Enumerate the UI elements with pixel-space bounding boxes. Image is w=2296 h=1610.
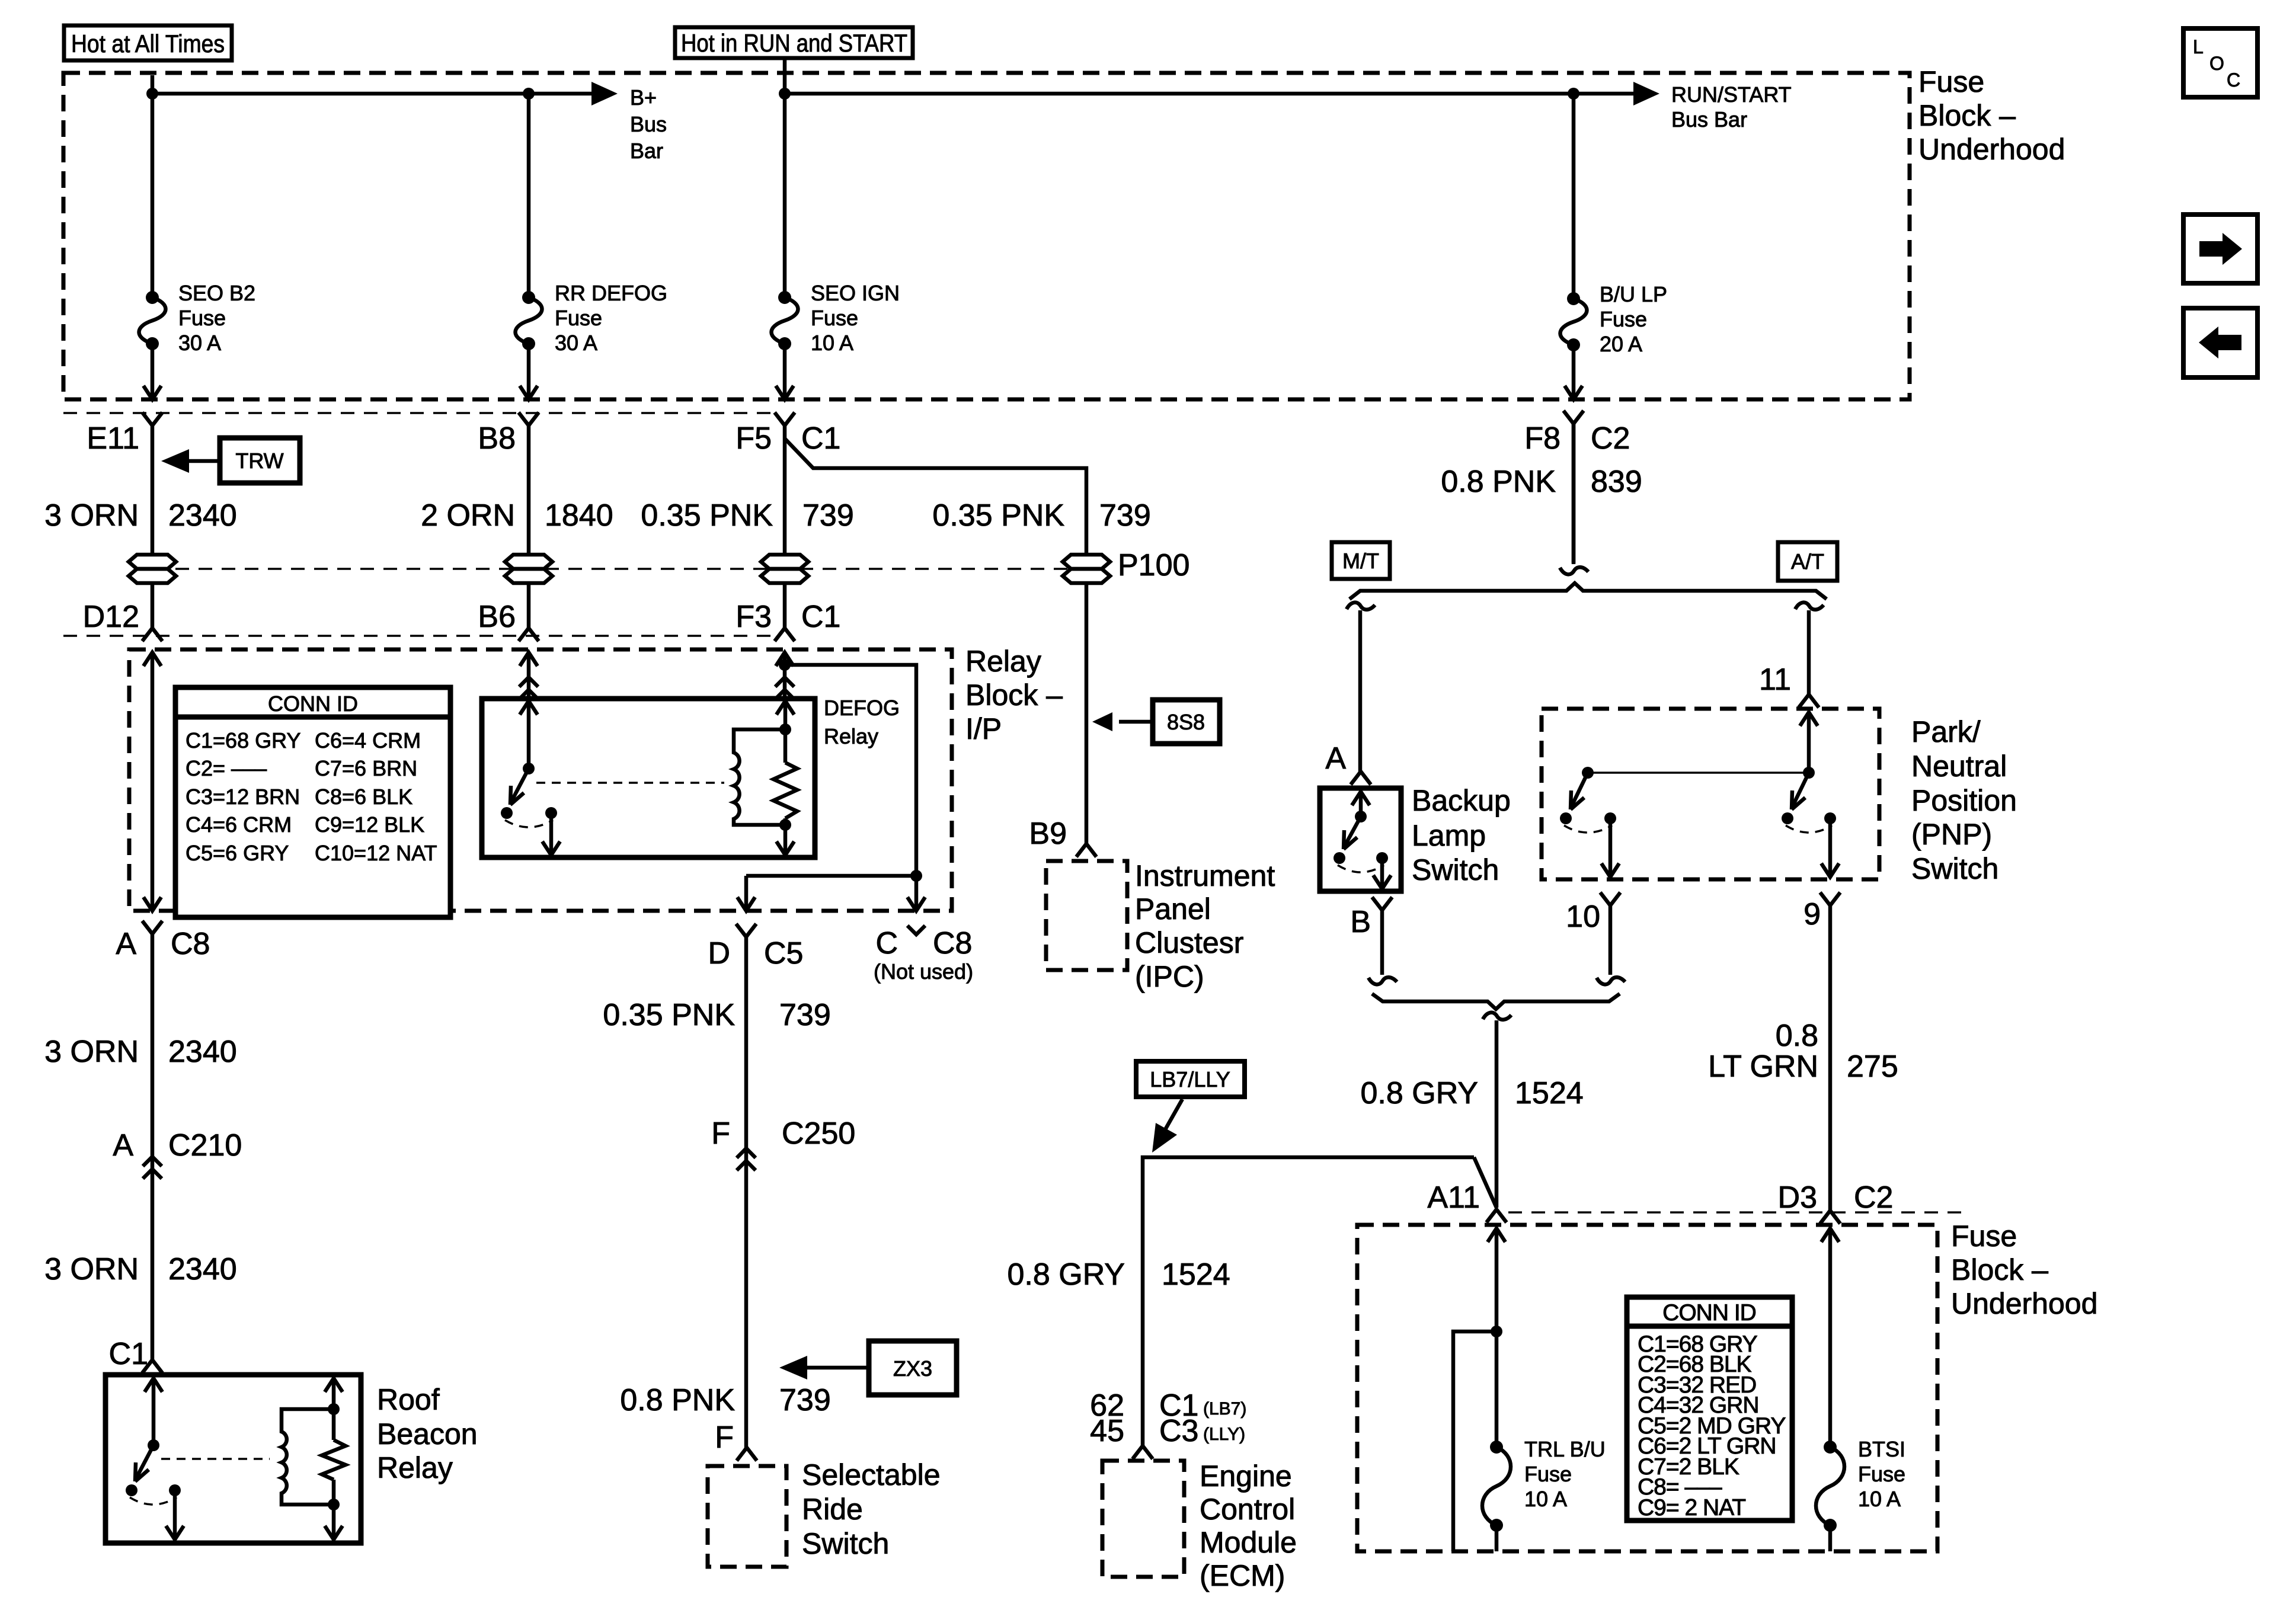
- svg-text:2340: 2340: [168, 1035, 237, 1069]
- fuse B/U LP 20A: [1560, 292, 1587, 351]
- svg-text:B/U LP: B/U LP: [1600, 282, 1667, 306]
- svg-text:D: D: [708, 936, 730, 971]
- connector row C1 thin dashed line (fuse block outputs): [63, 412, 770, 414]
- svg-text:9: 9: [1803, 897, 1821, 932]
- svg-text:SEO IGN: SEO IGN: [811, 281, 900, 305]
- svg-text:B+: B+: [630, 85, 657, 110]
- svg-text:C1: C1: [801, 421, 840, 456]
- connector B chevron: [1372, 897, 1392, 910]
- svg-text:(LLY): (LLY): [1203, 1425, 1245, 1444]
- svg-text:1524: 1524: [1162, 1257, 1230, 1292]
- wire F3 segment: [783, 583, 787, 628]
- connector grommet wireB: [505, 555, 552, 583]
- svg-text:(PNP): (PNP): [1911, 818, 1992, 851]
- svg-text:A: A: [1325, 741, 1346, 776]
- svg-text:BTSI: BTSI: [1858, 1437, 1905, 1461]
- PNP pin 10 output arrow: [1601, 818, 1619, 877]
- svg-text:RUN/START: RUN/START: [1671, 82, 1792, 107]
- svg-text:C: C: [2227, 69, 2240, 91]
- svg-text:Engine: Engine: [1200, 1459, 1292, 1493]
- svg-text:C5: C5: [764, 936, 803, 971]
- svg-text:2 ORN: 2 ORN: [421, 498, 515, 533]
- svg-text:D3: D3: [1778, 1180, 1817, 1215]
- svg-text:(IPC): (IPC): [1135, 960, 1204, 993]
- backup lamp switch pivot: [1355, 811, 1367, 822]
- svg-text:1524: 1524: [1515, 1076, 1584, 1110]
- roof beacon coil junction dots: [328, 1403, 340, 1510]
- wire 0.35 PNK 739 (D-F): [744, 937, 749, 1448]
- svg-text:C: C: [875, 926, 898, 961]
- label C1 (LB7): [1159, 1388, 1246, 1423]
- svg-text:Neutral: Neutral: [1911, 750, 2007, 783]
- svg-text:(ECM): (ECM): [1200, 1559, 1285, 1592]
- wire D output arrow: [737, 897, 755, 911]
- svg-text:(LB7): (LB7): [1203, 1399, 1246, 1419]
- roof beacon switch pin arrow: [145, 1378, 162, 1445]
- fuse TRL B/U 10A: [1482, 1441, 1511, 1532]
- defog relay resistor: [773, 763, 797, 818]
- reference box TRW: [220, 438, 300, 483]
- label Instrument Panel Clustesr (IPC): [1135, 859, 1275, 993]
- svg-text:839: 839: [1591, 465, 1642, 499]
- svg-text:30 A: 30 A: [555, 331, 597, 355]
- wire defog switch output to D/C5 and C/C8: [746, 836, 916, 907]
- wire 0.35 PNK 739 (F5-F3): [783, 425, 787, 555]
- svg-text:F8: F8: [1524, 421, 1560, 456]
- svg-text:B: B: [1350, 905, 1371, 939]
- reference box ZX3: [869, 1341, 957, 1395]
- wire 0.8 GRY 1524 (merge to A11): [1483, 1013, 1511, 1208]
- svg-text:A/T: A/T: [1791, 549, 1824, 574]
- label 3 ORN 2340 (row2): [44, 1035, 237, 1069]
- svg-text:C6=4 CRM: C6=4 CRM: [315, 728, 421, 753]
- fuse SEO IGN 10A: [772, 291, 798, 350]
- backup lamp switch pin arrow: [1352, 792, 1370, 817]
- node junction dot TRL jumper: [1491, 1326, 1502, 1337]
- defog relay switch pin arrow: [520, 701, 538, 769]
- label RR DEFOG Fuse 30 A: [555, 281, 667, 355]
- svg-text:C4=6 CRM: C4=6 CRM: [186, 812, 292, 837]
- svg-text:739: 739: [779, 1383, 831, 1417]
- label 0.8 LT GRN 275: [1708, 1019, 1898, 1084]
- svg-text:C210: C210: [168, 1128, 242, 1163]
- label 0.35 PNK 739: [641, 498, 853, 533]
- wire roof beacon feed through relay block: [143, 652, 161, 911]
- svg-text:8S8: 8S8: [1167, 710, 1205, 734]
- svg-text:0.8 PNK: 0.8 PNK: [620, 1383, 735, 1417]
- defog relay switch output arrow: [542, 813, 560, 855]
- selectable ride switch dashed box: [708, 1466, 786, 1567]
- roof beacon coil: [282, 1409, 334, 1505]
- svg-text:Bus Bar: Bus Bar: [1671, 107, 1747, 132]
- legend box LOC: [2183, 28, 2257, 97]
- label 0.8 GRY 1524 (upper): [1361, 1076, 1584, 1110]
- svg-text:0.35 PNK: 0.35 PNK: [641, 498, 773, 533]
- svg-text:C1: C1: [801, 600, 840, 634]
- roof beacon switch contacts: [126, 1484, 181, 1505]
- svg-text:3 ORN: 3 ORN: [44, 498, 139, 533]
- splice bracket B/10 merge: [1372, 994, 1620, 1009]
- PNP right contacts: [1782, 812, 1836, 833]
- node junction dot bus1/wireA: [146, 88, 158, 100]
- wire BTSI fuse to block edge: [1828, 1525, 1833, 1551]
- svg-text:F3: F3: [736, 600, 772, 634]
- connector D/C5 chevron: [736, 924, 756, 937]
- svg-text:Relay: Relay: [824, 724, 878, 748]
- wire C output arrow: [907, 897, 925, 911]
- wire SEO B2 feed: [151, 94, 155, 297]
- reference box A/T: [1778, 542, 1837, 581]
- connector F8/C2 chevron: [1563, 411, 1584, 424]
- svg-text:Underhood: Underhood: [1951, 1287, 2097, 1320]
- connector row C1 thin dashed line (relay block inputs): [63, 635, 770, 637]
- engine control module ECM dashed box: [1102, 1461, 1184, 1577]
- connector 11 chevron (PNP): [1799, 694, 1819, 708]
- roof beacon switch pivot: [148, 1439, 159, 1451]
- svg-text:DEFOG: DEFOG: [824, 696, 900, 720]
- svg-text:M/T: M/T: [1342, 549, 1379, 573]
- PNP left contacts: [1560, 812, 1616, 833]
- label box Hot in RUN and START: [675, 27, 913, 58]
- roof beacon switch output arrow: [166, 1490, 184, 1539]
- label 0.35 PNK 739 (D wire): [603, 998, 830, 1032]
- wire 0.8 GRY 1524 (LB7/LLY to ECM): [1143, 1157, 1474, 1446]
- svg-text:Bus: Bus: [630, 112, 667, 136]
- svg-text:Control: Control: [1200, 1493, 1295, 1526]
- arrow LB7/LLY to wire: [1152, 1099, 1182, 1153]
- svg-text:C9= 2 NAT: C9= 2 NAT: [1638, 1495, 1745, 1521]
- svg-text:3 ORN: 3 ORN: [44, 1252, 139, 1286]
- label 0.8 GRY 1524 (lower): [1008, 1257, 1230, 1292]
- svg-text:A11: A11: [1427, 1180, 1480, 1215]
- svg-text:Switch: Switch: [1911, 852, 1998, 885]
- svg-text:C5=6 GRY: C5=6 GRY: [186, 841, 289, 865]
- svg-text:2340: 2340: [168, 1252, 237, 1286]
- CONN ID table (relay block): [175, 687, 450, 917]
- relay DEFOG solid box: [482, 699, 815, 857]
- arrow ZX3 to wire: [779, 1356, 869, 1379]
- svg-text:E11: E11: [87, 421, 139, 456]
- PNP right pivot: [1803, 767, 1815, 779]
- wire 0.8 LT GRN 275: [1828, 905, 1833, 1211]
- svg-text:10 A: 10 A: [811, 331, 853, 355]
- connector F3/C1 chevron: [775, 628, 795, 641]
- node junction dot bus2/wireE: [1568, 88, 1579, 100]
- arrow 8S8 to wire: [1092, 712, 1153, 731]
- label SEO B2 Fuse 30 A: [178, 281, 255, 355]
- reference box M/T: [1332, 542, 1390, 579]
- wire SEO B2 fuse output arrow: [143, 344, 161, 399]
- svg-text:C8: C8: [171, 927, 210, 961]
- svg-text:C8=6 BLK: C8=6 BLK: [315, 785, 412, 809]
- PNP left pivot: [1582, 767, 1594, 779]
- svg-text:F: F: [711, 1116, 730, 1151]
- connector C1 chevron (roof beacon relay): [142, 1360, 162, 1373]
- wire TRL fuse to block edge: [1495, 1525, 1499, 1551]
- wire RR DEFOG feed: [527, 94, 531, 297]
- wire diagonal to A11: [1474, 1157, 1496, 1208]
- svg-text:C250: C250: [782, 1116, 855, 1151]
- label 0.8 PNK 839: [1441, 465, 1642, 499]
- svg-text:F: F: [715, 1420, 734, 1455]
- svg-text:C3=12 BRN: C3=12 BRN: [186, 785, 300, 809]
- backup lamp switch solid box: [1320, 788, 1401, 891]
- svg-text:Clustesr: Clustesr: [1135, 926, 1243, 959]
- defog relay switch pivot: [523, 763, 535, 774]
- connector grommet wireA: [129, 555, 176, 583]
- connector C/C8 chevron (not used): [907, 926, 925, 934]
- label 0.8 PNK 739: [620, 1383, 830, 1417]
- label 0.35 PNK 739 (branch): [932, 498, 1150, 533]
- wire RR DEFOG fuse output arrow: [520, 344, 538, 399]
- defog relay switch arm: [510, 769, 529, 805]
- svg-text:Hot in RUN and START: Hot in RUN and START: [681, 29, 907, 57]
- svg-text:Relay: Relay: [965, 645, 1041, 678]
- svg-text:ZX3: ZX3: [893, 1356, 932, 1381]
- label 2 ORN 1840: [421, 498, 613, 533]
- wire 3 ORN 2340 (A-A): [151, 934, 155, 1360]
- svg-text:10: 10: [1566, 900, 1600, 934]
- svg-text:Selectable: Selectable: [802, 1458, 941, 1491]
- defog relay coil pin arrows: [776, 701, 794, 855]
- wire 0.8 PNK 839 lower segment with curl: [1560, 424, 1588, 574]
- wire D12 segment: [151, 583, 155, 628]
- label Engine Control Module (ECM): [1200, 1459, 1297, 1592]
- svg-text:O: O: [2209, 53, 2224, 74]
- svg-text:Underhood: Underhood: [1918, 133, 2065, 166]
- wire RUN/START bus bar: [785, 58, 1659, 105]
- svg-text:C7=6 BRN: C7=6 BRN: [315, 756, 417, 780]
- backup lamp switch contacts: [1334, 852, 1388, 872]
- roof beacon mechanical link dashed: [161, 1458, 270, 1460]
- PNP right switch arm: [1792, 773, 1809, 809]
- svg-text:P100: P100: [1118, 548, 1189, 582]
- fuse SEO B2 30A: [139, 291, 166, 350]
- svg-text:Beacon: Beacon: [377, 1417, 478, 1451]
- svg-text:LT GRN: LT GRN: [1708, 1049, 1818, 1084]
- connector 10 chevron: [1600, 892, 1620, 905]
- svg-text:11: 11: [1759, 662, 1791, 697]
- wire B6 into relay block: [519, 652, 538, 699]
- svg-text:275: 275: [1847, 1049, 1898, 1084]
- svg-text:Bar: Bar: [630, 139, 663, 163]
- label Relay Block - I/P: [965, 645, 1063, 745]
- connector ECM chevron: [1133, 1446, 1153, 1459]
- label 3 ORN 2340: [44, 498, 237, 533]
- wire B output with curl: [1368, 910, 1397, 984]
- svg-text:10 A: 10 A: [1524, 1487, 1567, 1511]
- svg-text:Module: Module: [1200, 1526, 1297, 1559]
- svg-text:Fuse: Fuse: [1858, 1462, 1905, 1486]
- label 3 ORN 2340 (row3): [44, 1252, 237, 1286]
- defog relay mechanical link dashed: [536, 782, 724, 784]
- svg-text:Fuse: Fuse: [1600, 307, 1647, 331]
- svg-text:C9=12 BLK: C9=12 BLK: [315, 812, 424, 837]
- svg-text:Hot at All Times: Hot at All Times: [71, 30, 225, 57]
- instrument panel cluster IPC dashed box: [1046, 861, 1127, 970]
- node junction dot bus1/wireB: [523, 88, 535, 100]
- svg-text:Relay: Relay: [377, 1451, 453, 1484]
- wire B+ bus bar: [152, 75, 618, 105]
- PNP pin 11 arrow: [1800, 712, 1818, 773]
- wire 2 ORN 1840 (B8-B6): [527, 425, 531, 555]
- defog relay coil junction dots: [779, 724, 791, 831]
- wire 0.35 PNK 739 branch to P100: [785, 438, 1086, 555]
- svg-text:3 ORN: 3 ORN: [44, 1035, 139, 1069]
- svg-text:0.35 PNK: 0.35 PNK: [932, 498, 1064, 533]
- label Fuse Block - Underhood (top right): [1918, 65, 2065, 166]
- label box Hot at All Times: [64, 25, 232, 60]
- label SEO IGN Fuse 10 A: [811, 281, 900, 355]
- svg-text:I/P: I/P: [965, 712, 1002, 745]
- roof beacon resistor: [322, 1440, 346, 1480]
- wire F3 into relay block: [775, 652, 794, 699]
- svg-text:2340: 2340: [168, 498, 237, 533]
- svg-text:Block –: Block –: [1918, 99, 2016, 132]
- connector F5/C1 chevron: [775, 412, 795, 425]
- pass-through connector dashed line: [152, 568, 1086, 570]
- wire pin 10 output with curl: [1597, 905, 1625, 984]
- svg-text:739: 739: [779, 998, 831, 1032]
- connector A/C8 chevron (left column): [142, 921, 162, 934]
- wire M/T branch with curl: [1347, 603, 1375, 772]
- svg-text:LB7/LLY: LB7/LLY: [1150, 1067, 1230, 1092]
- reference box LB7/LLY: [1136, 1061, 1245, 1097]
- defog relay coil: [734, 729, 785, 825]
- svg-text:CONN ID: CONN ID: [268, 692, 358, 716]
- wire B/U LP fuse output arrow: [1565, 345, 1582, 399]
- svg-text:C10=12 NAT: C10=12 NAT: [315, 841, 437, 865]
- svg-text:Panel: Panel: [1135, 892, 1211, 926]
- svg-text:B8: B8: [478, 421, 516, 456]
- svg-text:Switch: Switch: [1412, 853, 1499, 886]
- connector D12 chevron: [142, 628, 162, 641]
- park/neutral position PNP switch dashed box: [1542, 709, 1879, 879]
- label Roof Beacon Relay: [377, 1383, 478, 1484]
- roof beacon coil pin arrows: [325, 1378, 343, 1539]
- label RUN/START Bus Bar: [1671, 82, 1792, 132]
- svg-text:C1: C1: [109, 1337, 148, 1371]
- svg-text:C2: C2: [1591, 421, 1630, 456]
- node junction dot F3 branch: [779, 659, 791, 671]
- svg-text:CONN ID: CONN ID: [1662, 1300, 1756, 1326]
- label C3 (LLY): [1159, 1414, 1245, 1448]
- svg-text:Block –: Block –: [1951, 1253, 2048, 1286]
- fuse BTSI 10A: [1816, 1441, 1844, 1532]
- svg-text:Roof: Roof: [377, 1383, 440, 1416]
- svg-text:A: A: [116, 927, 136, 961]
- svg-text:F5: F5: [736, 421, 772, 456]
- label Park/Neutral Position (PNP) Switch: [1911, 715, 2017, 885]
- svg-text:Block –: Block –: [965, 678, 1063, 712]
- svg-text:C2: C2: [1854, 1180, 1893, 1215]
- svg-text:Ride: Ride: [802, 1493, 863, 1526]
- svg-text:0.8: 0.8: [1776, 1019, 1818, 1053]
- svg-text:Fuse: Fuse: [178, 306, 226, 330]
- connector A11 chevron: [1486, 1209, 1507, 1222]
- connector A/C210 double chevron: [143, 1157, 162, 1179]
- label Fuse Block - Underhood (bottom): [1951, 1219, 2097, 1320]
- svg-text:(Not used): (Not used): [874, 959, 973, 984]
- node junction dot C branch: [910, 870, 922, 882]
- svg-text:Position: Position: [1911, 784, 2017, 817]
- arrow TRW to wire: [161, 449, 220, 473]
- backup lamp switch arm: [1344, 817, 1361, 849]
- node junction dot bus2/wireC: [779, 88, 791, 100]
- connector B8 chevron: [519, 412, 539, 425]
- connector grommet wireC: [761, 555, 808, 583]
- connector 9 chevron: [1820, 892, 1840, 905]
- svg-text:RR DEFOG: RR DEFOG: [555, 281, 667, 305]
- svg-text:L: L: [2193, 36, 2204, 57]
- label B/U LP Fuse 20 A: [1600, 282, 1667, 356]
- relay block I/P dashed box: [129, 649, 952, 911]
- svg-text:Fuse: Fuse: [811, 306, 858, 330]
- wire A11 into fuse block: [1488, 1228, 1505, 1447]
- wire 3 ORN 2340 (E11-D12): [151, 425, 155, 555]
- svg-text:TRL B/U: TRL B/U: [1524, 1437, 1606, 1461]
- label Backup Lamp Switch: [1412, 784, 1511, 886]
- roof beacon switch arm: [135, 1445, 154, 1481]
- svg-text:Backup: Backup: [1412, 784, 1511, 817]
- svg-text:A: A: [113, 1128, 133, 1163]
- connector B9 chevron: [1076, 844, 1096, 857]
- svg-text:Fuse: Fuse: [1524, 1462, 1572, 1486]
- wire SEO IGN feed: [783, 94, 787, 297]
- svg-text:C2= –––: C2= –––: [186, 756, 267, 780]
- connector F chevron (selectable ride): [737, 1448, 757, 1461]
- svg-text:Fuse: Fuse: [1951, 1219, 2017, 1253]
- wire defog C branch from F3 node: [785, 665, 916, 836]
- connector F/C250 double chevron: [737, 1148, 756, 1170]
- connector row thin dashed (A11-D3): [1508, 1211, 1968, 1214]
- backup lamp switch output arrow: [1373, 858, 1391, 889]
- label DEFOG Relay: [824, 696, 900, 748]
- svg-text:Fuse: Fuse: [1918, 65, 1984, 98]
- svg-text:Fuse: Fuse: [555, 306, 602, 330]
- fuse RR DEFOG 30A: [516, 291, 542, 350]
- svg-text:0.8 PNK: 0.8 PNK: [1441, 465, 1556, 499]
- label Selectable Ride Switch: [802, 1458, 941, 1560]
- defog relay switch contacts: [501, 807, 557, 827]
- connector B6 chevron: [519, 628, 539, 641]
- connector E11 chevron: [142, 412, 162, 425]
- PNP pivot link line: [1588, 772, 1809, 774]
- svg-text:0.8 GRY: 0.8 GRY: [1008, 1257, 1125, 1292]
- fuse block underhood (top) dashed box: [63, 73, 1910, 399]
- svg-text:0.35 PNK: 0.35 PNK: [603, 998, 735, 1032]
- wire B6 segment: [527, 583, 531, 628]
- label TRL B/U Fuse 10 A: [1524, 1437, 1606, 1511]
- svg-text:Park/: Park/: [1911, 715, 1981, 748]
- wire SEO IGN fuse output arrow: [776, 344, 794, 399]
- wire 0.8 PNK 839 (F8-C2): [1572, 424, 1576, 563]
- relay Roof Beacon solid box: [105, 1375, 361, 1543]
- svg-text:30 A: 30 A: [178, 331, 221, 355]
- PNP pin 9 output arrow: [1821, 818, 1839, 877]
- label BTSI Fuse 10 A: [1858, 1437, 1905, 1511]
- svg-text:Switch: Switch: [802, 1527, 889, 1560]
- svg-text:SEO B2: SEO B2: [178, 281, 255, 305]
- svg-text:10 A: 10 A: [1858, 1487, 1901, 1511]
- svg-text:0.8 GRY: 0.8 GRY: [1361, 1076, 1478, 1110]
- fuse block underhood (bottom right) dashed box: [1357, 1225, 1937, 1551]
- splice bracket M/T A/T: [1350, 583, 1827, 599]
- label B+ Bus Bar: [630, 85, 667, 163]
- svg-text:739: 739: [802, 498, 854, 533]
- reference box 8S8: [1153, 700, 1220, 744]
- svg-text:C8: C8: [933, 926, 972, 961]
